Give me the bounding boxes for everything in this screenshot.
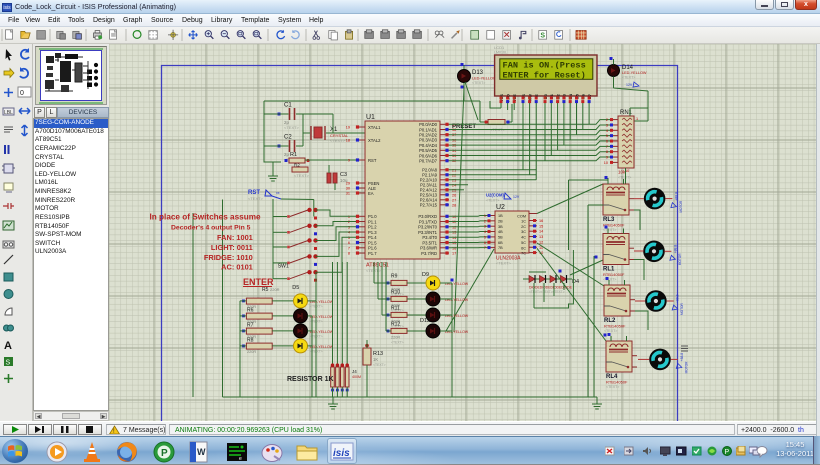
svg-text:5B: 5B (498, 236, 503, 240)
svg-text:P2.7/A15: P2.7/A15 (420, 203, 438, 208)
svg-text:7C: 7C (521, 252, 526, 256)
svg-text:J4: J4 (352, 369, 357, 374)
svg-text:1K: 1K (373, 357, 378, 362)
svg-text:AC: 0101: AC: 0101 (221, 263, 253, 272)
svg-text:ENTER: ENTER (243, 277, 274, 287)
svg-text:RESISTOR 1K: RESISTOR 1K (287, 376, 334, 383)
svg-text:R11: R11 (391, 306, 400, 312)
svg-text:<TEXT>: <TEXT> (606, 385, 619, 389)
svg-text:EA: EA (368, 191, 374, 196)
svg-text:U1: U1 (366, 114, 375, 121)
svg-text:P3.4/T0: P3.4/T0 (422, 235, 437, 240)
svg-text:30: 30 (346, 187, 350, 191)
svg-text:RTB14050F: RTB14050F (603, 272, 625, 277)
svg-text:3C: 3C (521, 230, 526, 234)
svg-text:<TEXT>: <TEXT> (486, 199, 499, 203)
svg-text:12: 12 (539, 240, 543, 244)
svg-text:XTAL2: XTAL2 (368, 138, 381, 143)
svg-text:15: 15 (539, 224, 543, 228)
svg-text:28: 28 (452, 203, 456, 207)
svg-text:MOTOR: MOTOR (680, 302, 684, 315)
svg-text:1: 1 (484, 214, 486, 218)
svg-text:P0.7/AD7: P0.7/AD7 (419, 159, 438, 164)
svg-text:<TEXT>: <TEXT> (622, 76, 635, 80)
svg-text:LCD1: LCD1 (494, 45, 505, 50)
svg-text:RST: RST (368, 158, 377, 163)
svg-text:P3.7/RD: P3.7/RD (421, 251, 437, 256)
svg-text:<TEXT>: <TEXT> (604, 329, 617, 333)
svg-text:P3.1/TXD: P3.1/TXD (419, 219, 437, 224)
svg-text:400M: 400M (352, 375, 361, 379)
svg-text:<TEXT>: <TEXT> (330, 138, 346, 143)
svg-text:D13: D13 (472, 70, 484, 76)
svg-text:220R: 220R (247, 350, 256, 354)
svg-text:COM: COM (517, 215, 526, 219)
svg-text:2C: 2C (521, 225, 526, 229)
svg-text:xx: xx (276, 191, 280, 195)
svg-text:FAN is ON.(Press: FAN is ON.(Press (503, 61, 586, 71)
svg-text:D12: D12 (420, 318, 430, 324)
svg-text:5: 5 (484, 235, 486, 239)
svg-text:2B: 2B (498, 219, 503, 223)
svg-text:P1.7: P1.7 (368, 251, 377, 256)
svg-text:P3.0/RXD: P3.0/RXD (418, 214, 437, 219)
svg-text:1: 1 (636, 117, 638, 121)
svg-text:12V: 12V (513, 195, 520, 199)
svg-text:In place of Switches assume: In place of Switches assume (150, 213, 261, 222)
svg-text:<TEXT>: <TEXT> (603, 278, 616, 282)
svg-text:7: 7 (484, 246, 486, 250)
svg-text:1B: 1B (498, 214, 503, 218)
svg-text:LED-YELLOW: LED-YELLOW (472, 77, 497, 81)
svg-text:<TEXT>: <TEXT> (294, 173, 310, 178)
svg-text:P1.2: P1.2 (368, 225, 377, 230)
svg-text:P: P (725, 449, 730, 456)
svg-text:FAN: 1001: FAN: 1001 (217, 233, 253, 242)
svg-text:4C: 4C (521, 236, 526, 240)
svg-text:P3.5/T1: P3.5/T1 (422, 240, 437, 245)
svg-text:0: 0 (20, 90, 24, 97)
svg-text:A: A (4, 340, 12, 352)
svg-text:6: 6 (484, 241, 486, 245)
svg-text:U2: U2 (496, 204, 505, 211)
svg-text:+88.8: +88.8 (673, 245, 677, 254)
svg-text:C1: C1 (284, 103, 292, 109)
svg-text:MOTOR: MOTOR (679, 200, 683, 213)
svg-text:4B: 4B (498, 230, 503, 234)
svg-text:LED-YELLOW: LED-YELLOW (622, 71, 647, 75)
svg-text:D9: D9 (422, 272, 429, 278)
svg-text:<TEXT>: <TEXT> (603, 228, 616, 232)
svg-text:R10: R10 (391, 290, 400, 296)
svg-text:R1: R1 (290, 152, 297, 158)
svg-text:ENTER for Reset): ENTER for Reset) (503, 70, 586, 80)
svg-text:P1.3: P1.3 (368, 230, 377, 235)
svg-text:P1.5: P1.5 (368, 240, 377, 245)
svg-text:17: 17 (452, 252, 456, 256)
svg-text:<TEXT>: <TEXT> (618, 176, 631, 180)
svg-text:P: P (161, 448, 168, 459)
svg-text:LED-YELLOW: LED-YELLOW (310, 330, 334, 334)
svg-text:LED-YELLOW: LED-YELLOW (310, 345, 334, 349)
svg-text:+88.8: +88.8 (680, 353, 684, 362)
svg-text:9: 9 (606, 156, 608, 160)
svg-text:R7: R7 (247, 322, 254, 328)
svg-text:R9: R9 (391, 274, 398, 280)
svg-text:SW1: SW1 (278, 264, 289, 270)
svg-text:RTB14050F: RTB14050F (606, 380, 628, 385)
svg-text:220R: 220R (270, 287, 280, 292)
svg-text:19: 19 (346, 126, 350, 130)
svg-text:XTAL1: XTAL1 (368, 125, 381, 130)
svg-text:<TEXT>: <TEXT> (391, 341, 404, 345)
svg-text:E: E (534, 94, 539, 97)
svg-text:R5: R5 (262, 287, 269, 293)
svg-text:S: S (540, 33, 545, 40)
svg-text:+88.8: +88.8 (674, 192, 678, 201)
svg-text:C2: C2 (284, 135, 292, 141)
svg-text:2: 2 (606, 118, 608, 122)
svg-text:S: S (6, 360, 11, 367)
svg-text:MOTOR: MOTOR (678, 253, 682, 266)
svg-text:R12: R12 (391, 322, 400, 328)
svg-text:3: 3 (606, 123, 608, 127)
svg-text:MOTOR: MOTOR (684, 361, 688, 374)
svg-text:4: 4 (484, 230, 486, 234)
svg-text:10: 10 (604, 161, 608, 165)
svg-text:13: 13 (539, 235, 543, 239)
svg-text:LBL: LBL (4, 110, 13, 116)
svg-text:5: 5 (606, 134, 608, 138)
svg-text:8: 8 (348, 252, 350, 256)
svg-text:18: 18 (346, 139, 350, 143)
svg-text:8: 8 (606, 150, 608, 154)
svg-text:P1.4: P1.4 (368, 235, 377, 240)
svg-text:7B: 7B (498, 246, 503, 250)
svg-text:12V: 12V (626, 83, 633, 87)
svg-text:RN1: RN1 (620, 110, 633, 116)
svg-text:6B: 6B (498, 241, 503, 245)
svg-text:3B: 3B (498, 225, 503, 229)
svg-text:+88.8: +88.8 (676, 294, 680, 303)
svg-text:LIGHT: 0011: LIGHT: 0011 (211, 243, 253, 252)
svg-text:P3.6/WR: P3.6/WR (420, 246, 437, 251)
svg-text:U2(COM): U2(COM) (486, 193, 505, 198)
svg-text:6: 6 (606, 140, 608, 144)
svg-text:LM016L: LM016L (494, 51, 507, 55)
svg-text:7: 7 (606, 145, 608, 149)
svg-text:isis: isis (333, 448, 350, 459)
svg-text:R2: R2 (294, 163, 300, 168)
svg-text:29: 29 (346, 182, 350, 186)
svg-text:<TEXT>: <TEXT> (496, 261, 512, 266)
svg-text:D5: D5 (292, 285, 299, 291)
svg-text:e: e (239, 456, 242, 462)
svg-text:P3.2/INT0: P3.2/INT0 (418, 225, 438, 230)
svg-text:P1.0: P1.0 (368, 214, 377, 219)
svg-text:1C: 1C (521, 220, 526, 224)
svg-text:4: 4 (606, 129, 608, 133)
svg-text:Decoder's 4 output Pin 5: Decoder's 4 output Pin 5 (171, 225, 251, 232)
svg-text:31: 31 (346, 192, 350, 196)
svg-text:P1.6: P1.6 (368, 246, 377, 251)
svg-text:R8: R8 (247, 337, 254, 343)
svg-text:3: 3 (484, 225, 486, 229)
svg-text:<TEXT>: <TEXT> (373, 363, 386, 367)
svg-text:27: 27 (452, 198, 456, 202)
svg-text:6: 6 (348, 241, 350, 245)
svg-text:26: 26 (452, 193, 456, 197)
svg-text:<TEXT>: <TEXT> (472, 81, 485, 85)
svg-text:<TEXT>: <TEXT> (284, 125, 300, 130)
svg-text:R6: R6 (247, 307, 254, 313)
svg-text:14: 14 (539, 230, 543, 234)
svg-text:220R: 220R (391, 336, 400, 340)
svg-text:FRIDGE: 1010: FRIDGE: 1010 (204, 253, 253, 262)
svg-text:P3.3/INT1: P3.3/INT1 (418, 230, 438, 235)
svg-text:W: W (197, 447, 206, 457)
svg-text:7: 7 (348, 246, 350, 250)
svg-text:6C: 6C (521, 246, 526, 250)
svg-text:16: 16 (539, 219, 543, 223)
svg-text:9: 9 (348, 159, 350, 163)
svg-text:<TEXT>: <TEXT> (248, 196, 264, 201)
svg-text:RTB14050F: RTB14050F (604, 324, 626, 329)
svg-text:LED-YELLOW: LED-YELLOW (310, 315, 334, 319)
svg-text:P1.1: P1.1 (368, 219, 377, 224)
svg-text:2: 2 (484, 219, 486, 223)
svg-text:5C: 5C (521, 241, 526, 245)
